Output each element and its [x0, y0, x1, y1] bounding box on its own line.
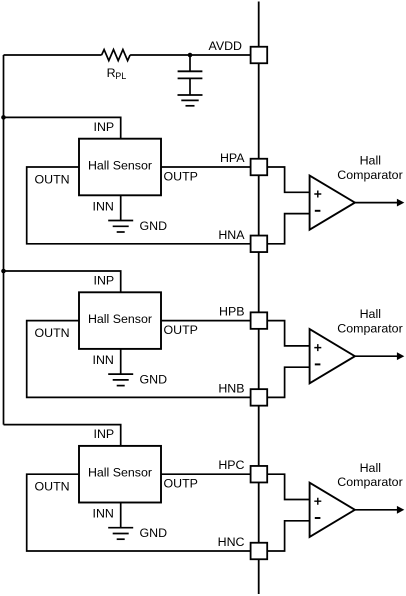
label HNC — [218, 535, 245, 549]
hall sensor block B — [79, 292, 161, 349]
svg-text:Hall: Hall — [360, 154, 381, 168]
wire OUTN net sensor B to HNB — [27, 321, 251, 398]
svg-text:OUTP: OUTP — [164, 170, 198, 184]
svg-text:GND: GND — [140, 219, 168, 233]
label HNA — [218, 228, 245, 242]
label Hall Comparator (B) — [337, 307, 402, 335]
wire INN stub sensor C — [120, 503, 122, 528]
label AVDD — [208, 39, 242, 53]
label INN (B) — [93, 353, 114, 367]
svg-text:AVDD: AVDD — [208, 39, 242, 53]
label GND (C) — [140, 526, 168, 540]
ground (sensor A INN) — [108, 221, 133, 233]
node junction at capacitor — [188, 53, 193, 58]
hall sensor block C — [79, 446, 161, 503]
label GND (A) — [140, 219, 168, 233]
op-amp hall comparator C — [310, 483, 355, 537]
wire HPA to comparator A noninverting input — [267, 167, 309, 192]
wire HNA to comparator A inverting input — [267, 214, 309, 244]
capacitor (AVDD bypass) — [178, 55, 203, 95]
svg-text:Comparator: Comparator — [337, 475, 402, 489]
label HPA — [220, 151, 245, 165]
wire INP net sensor B — [4, 271, 121, 292]
wire INP net sensor A — [4, 117, 121, 138]
label INP (C) — [94, 427, 115, 441]
pin terminal HPB — [251, 312, 268, 329]
label Hall Comparator (A) — [337, 154, 402, 182]
wire INN stub sensor B — [120, 349, 122, 374]
label OUTP (B) — [164, 323, 198, 337]
wire comparator C output with arrowhead — [355, 506, 404, 514]
wire HNB to comparator B inverting input — [267, 367, 309, 397]
resistor RPL — [102, 50, 131, 61]
label INN (C) — [93, 507, 114, 521]
label OUTN (C) — [35, 480, 70, 494]
svg-text:OUTP: OUTP — [164, 323, 198, 337]
hall sensor block A — [79, 139, 161, 196]
svg-text:OUTP: OUTP — [164, 477, 198, 491]
wire HPB to comparator B noninverting input — [267, 321, 309, 346]
label RPL — [107, 66, 127, 81]
svg-text:HNA: HNA — [218, 228, 245, 242]
label HPC — [218, 458, 244, 472]
pin terminal AVDD — [251, 47, 268, 64]
wire OUTN net sensor C to HNC — [27, 474, 251, 551]
pin terminal HNB — [251, 389, 268, 406]
svg-text:GND: GND — [140, 526, 168, 540]
op-amp hall comparator B — [310, 329, 355, 383]
pin terminal HNC — [251, 543, 268, 560]
svg-text:INN: INN — [93, 353, 114, 367]
pin terminal HPC — [251, 466, 268, 483]
label OUTN (A) — [35, 172, 70, 186]
node junction INP B on left bus — [1, 269, 6, 274]
wire comparator B output with arrowhead — [355, 352, 404, 360]
ground (capacitor) — [178, 95, 203, 106]
svg-text:Hall: Hall — [360, 461, 381, 475]
svg-text:OUTN: OUTN — [35, 326, 70, 340]
label OUTN (B) — [35, 326, 70, 340]
svg-text:OUTN: OUTN — [35, 480, 70, 494]
svg-text:Comparator: Comparator — [337, 168, 402, 182]
label HNB — [218, 381, 244, 395]
label GND (B) — [140, 373, 168, 387]
svg-text:HNB: HNB — [218, 381, 244, 395]
svg-text:Hall Sensor: Hall Sensor — [88, 158, 152, 172]
label HPB — [219, 305, 244, 319]
wire comparator A output with arrowhead — [355, 199, 404, 207]
svg-text:Hall Sensor: Hall Sensor — [88, 466, 152, 480]
svg-text:Comparator: Comparator — [337, 322, 402, 336]
svg-text:GND: GND — [140, 373, 168, 387]
svg-text:INN: INN — [93, 507, 114, 521]
svg-text:Hall: Hall — [360, 307, 381, 321]
label INP (A) — [94, 120, 115, 134]
op-amp hall comparator A — [310, 176, 355, 230]
ground (sensor B INN) — [108, 374, 133, 386]
svg-text:HPA: HPA — [220, 151, 245, 165]
svg-text:INP: INP — [94, 274, 115, 288]
ground (sensor C INN) — [108, 528, 133, 540]
svg-text:INP: INP — [94, 427, 115, 441]
label INP (B) — [94, 274, 115, 288]
wire main vertical bus — [258, 2, 260, 595]
svg-text:INN: INN — [93, 200, 114, 214]
label OUTP (C) — [164, 477, 198, 491]
wire OUTP net sensor B to HPB — [161, 320, 251, 322]
svg-text:HPB: HPB — [219, 305, 244, 319]
svg-text:PL: PL — [115, 71, 126, 81]
wire AVDD rail (right segment) — [130, 54, 251, 56]
pin terminal HPA — [251, 159, 268, 176]
svg-text:INP: INP — [94, 120, 115, 134]
svg-text:HNC: HNC — [218, 535, 245, 549]
wire OUTP net sensor C to HPC — [161, 473, 251, 475]
wire INN stub sensor A — [120, 195, 122, 220]
wire OUTP net sensor A to HPA — [161, 166, 251, 168]
wire HPC to comparator C noninverting input — [267, 474, 309, 499]
svg-text:HPC: HPC — [218, 458, 244, 472]
svg-text:OUTN: OUTN — [35, 172, 70, 186]
label OUTP (A) — [164, 170, 198, 184]
wire left vertical bus — [3, 55, 5, 425]
node junction INP A on left bus — [1, 115, 6, 120]
label Hall Comparator (C) — [337, 461, 402, 489]
pin terminal HNA — [251, 236, 268, 253]
label INN (A) — [93, 200, 114, 214]
wire INP net sensor C — [4, 425, 121, 446]
svg-text:Hall Sensor: Hall Sensor — [88, 312, 152, 326]
wire AVDD rail (left segment) — [4, 54, 102, 56]
wire HNC to comparator C inverting input — [267, 521, 309, 551]
wire OUTN net sensor A to HNA — [27, 167, 251, 244]
